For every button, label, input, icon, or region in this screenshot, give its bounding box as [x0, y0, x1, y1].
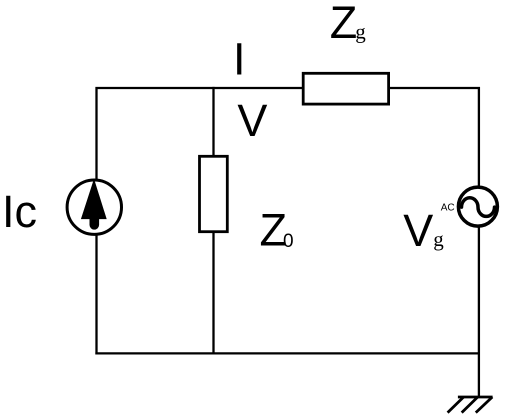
wire left vertical bottom (Ic to bottom rail) — [95, 235, 97, 355]
svg-text:g: g — [355, 19, 366, 43]
AC source sine wave — [462, 198, 495, 217]
current source Ic (circle) — [67, 180, 121, 234]
resistor Z0 (box) — [200, 156, 228, 231]
resistor Zg (box) — [303, 73, 388, 104]
ground symbol — [448, 397, 493, 413]
wire top-right run (Zg to right vertical down to Vg) — [390, 88, 479, 187]
svg-text:V: V — [237, 95, 267, 146]
svg-text:Z: Z — [330, 0, 358, 48]
wire middle vertical bottom (Z0 to bottom rail) — [212, 233, 214, 355]
AC source Vg (circle) — [458, 187, 497, 226]
svg-text:I: I — [233, 33, 246, 84]
svg-text:Ic: Ic — [2, 186, 37, 237]
current source Ic arrow — [81, 179, 107, 225]
wire top-left run (left vertical top + top horizontal to Zg) — [97, 88, 303, 181]
svg-text:V: V — [403, 205, 433, 256]
wire bottom rail — [95, 352, 479, 354]
wire right vertical bottom (Vg to ground) — [478, 227, 480, 397]
svg-text:0: 0 — [283, 231, 294, 252]
svg-text:AC: AC — [441, 203, 455, 214]
wire middle vertical top (node to Z0) — [212, 87, 214, 156]
svg-text:g: g — [433, 227, 444, 251]
